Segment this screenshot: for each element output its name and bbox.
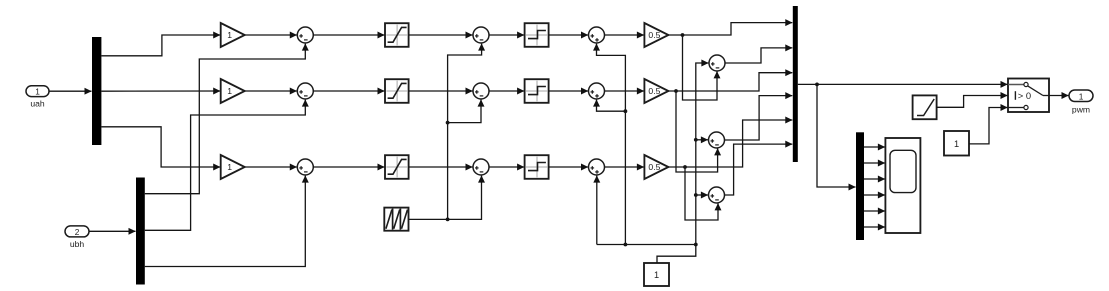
wire uah to demux D1 (49, 90, 92, 92)
constant CONST2 (value 1) (944, 131, 969, 156)
wire d2 to mux M1 input 3 (668, 73, 792, 91)
wire relay R2 to sum S3B (549, 90, 588, 92)
wire mux M1 output to switch SW input 1 (798, 83, 1008, 85)
ramp block RAMP (913, 95, 937, 119)
wire D3 out5 to scope (864, 210, 885, 212)
junction d2 (674, 89, 678, 93)
input port 2 (ubh) (65, 226, 89, 237)
svg-text:0.5: 0.5 (648, 30, 660, 40)
wire saturation SAT3 to sum S2C (409, 166, 473, 168)
wire const to sum SB plus input (696, 139, 708, 141)
wire sum S3B to gain G05B (605, 90, 644, 92)
wire CONST1 output (657, 245, 696, 264)
wire D1 out3 to gain K3 (101, 127, 220, 167)
sum S3A (+,+) (589, 27, 605, 43)
sum SA (1-d1) (709, 55, 725, 71)
wire sum S2B to relay R2 (489, 90, 524, 92)
wire D2 out3 to sum S1C minus input (145, 176, 305, 267)
sum SB (1-d2) (709, 132, 725, 148)
wire TRI to sum S2C minus input (448, 176, 482, 220)
wire D3 out4 to scope (864, 194, 885, 196)
svg-text:1: 1 (1079, 91, 1084, 101)
wire d2 branch to sum SB minus input (676, 91, 718, 172)
wire sum SC to mux M1 input 6 (725, 144, 793, 195)
relay R1 (525, 23, 549, 47)
wire sum S3C to gain G05C (605, 166, 644, 168)
wire d1 branch to sum SA minus input (683, 35, 718, 100)
repeating sequence TRI (sawtooth) (384, 208, 408, 231)
junction const row2 (624, 109, 628, 113)
wire CONST2 to switch SW input 3 (969, 108, 1008, 144)
svg-text:1: 1 (954, 139, 959, 149)
wire d1 to mux M1 input 1 (668, 23, 792, 35)
saturation SAT1 (385, 23, 409, 47)
gain G05C (value 0.5) (644, 155, 668, 179)
svg-text:ubh: ubh (70, 239, 85, 249)
wire D2 out2 to sum S1B minus input (145, 100, 305, 231)
wire D3 out3 to scope (864, 178, 885, 180)
wire d3 to mux M1 input 5 (668, 120, 792, 167)
svg-text:0.5: 0.5 (648, 86, 660, 96)
svg-text:2: 2 (75, 227, 80, 237)
svg-text:0.5: 0.5 (648, 162, 660, 172)
junction d1 (681, 33, 685, 37)
sum S1B (+,-) (297, 83, 313, 99)
gain G05B (value 0.5) (644, 79, 668, 103)
scope SCOPE (885, 138, 920, 233)
input port 1 (uah) (26, 86, 49, 97)
demux D2 (ubh) bar (136, 178, 145, 285)
demux D1 (uah) bar (92, 37, 101, 145)
junction const net right (694, 243, 698, 247)
wire D1 out2 to gain K2 (101, 90, 220, 92)
svg-text:1: 1 (227, 162, 232, 172)
wire sum S1B to saturation SAT2 (313, 90, 384, 92)
wire TRI to sum S2B minus input (448, 100, 481, 123)
junction const to SC (694, 193, 698, 197)
relay R3 (525, 155, 549, 179)
wire D3 out6 to scope (864, 226, 885, 228)
sum SC (1-d3) (709, 187, 725, 203)
junction TRI mid (446, 121, 450, 125)
demux D3 bar (856, 132, 864, 240)
wire sum SA to mux M1 input 2 (725, 48, 792, 63)
junction mux output (815, 83, 819, 87)
svg-text:> 0: > 0 (1018, 90, 1031, 101)
wire sum S2C to relay R3 (489, 166, 524, 168)
saturation SAT3 (385, 155, 409, 179)
wire D1 out1 to gain K1 (101, 35, 220, 56)
sum S2A (+,-) (473, 27, 489, 43)
junction d3 (683, 165, 687, 169)
junction TRI bottom (446, 218, 450, 222)
wire sum S1C to saturation SAT3 (313, 166, 384, 168)
wire relay R3 to sum S3C (549, 166, 588, 168)
svg-text:uah: uah (30, 99, 45, 109)
wire gain K3 to sum S1C (245, 166, 297, 168)
wire const to sum SA plus input (696, 63, 709, 245)
output port 1 (pwm) (1069, 90, 1093, 102)
wire gain K2 to sum S1B (245, 90, 297, 92)
wire sum S2A to relay R1 (489, 34, 524, 36)
relay R2 (525, 79, 549, 103)
junction const net mid (624, 243, 628, 247)
gain K3 (value 1) (221, 155, 245, 179)
sum S2C (+,-) (473, 159, 489, 175)
wire const net horizontal (597, 244, 696, 246)
wire const to sum S3A plus input (597, 44, 626, 112)
svg-text:1: 1 (35, 87, 40, 97)
wire relay R1 to sum S3A (549, 34, 588, 36)
gain G05A (value 0.5) (644, 23, 668, 47)
wire d3 branch to sum SC minus input (685, 167, 718, 220)
wire D3 out2 to scope (864, 162, 885, 164)
gain K1 (value 1) (221, 23, 245, 47)
wire saturation SAT2 to sum S2B (409, 90, 473, 92)
sum S1A (+,-) (297, 27, 313, 43)
wire const to sum S3B plus input (597, 100, 626, 112)
wire sum S1A to saturation SAT1 (313, 34, 384, 36)
wire ubh to demux D2 (89, 230, 136, 232)
sum S1C (+,-) (297, 159, 313, 175)
sum S3C (+,+) (589, 159, 605, 175)
svg-text:pwm: pwm (1072, 105, 1090, 115)
wire const riser (624, 111, 626, 244)
wire TRI to sum S2A minus input (448, 44, 482, 123)
svg-text:1: 1 (227, 86, 232, 96)
svg-text:1: 1 (654, 270, 659, 280)
junction const to SB (694, 138, 698, 142)
constant CONST1 (value 1) (644, 263, 669, 286)
wire sum SB to mux M1 input 4 (725, 96, 793, 140)
saturation SAT2 (385, 79, 409, 103)
wire gain K1 to sum S1A (245, 34, 297, 36)
wire const to sum S3C plus input (596, 176, 598, 245)
wire sum S3A to gain G05A (605, 34, 644, 36)
switch SW (criteria > 0) (1008, 79, 1049, 113)
wire switch SW to output port pwm (1049, 95, 1069, 97)
mux M1 bar (793, 6, 798, 162)
wire TRI output (409, 218, 448, 220)
sum S2B (+,-) (473, 83, 489, 99)
wire saturation SAT1 to sum S2A (409, 34, 473, 36)
wire TRI riser (447, 123, 449, 220)
wire mux output to demux D3 (817, 84, 856, 187)
wire D2 out1 to sum S1A minus input (145, 44, 305, 194)
sum S3B (+,+) (589, 83, 605, 99)
wire RAMP to switch SW input 2 (937, 96, 1008, 108)
svg-text:1: 1 (227, 30, 232, 40)
wire D3 out1 to scope (864, 146, 885, 148)
gain K2 (value 1) (221, 79, 245, 103)
wire const to sum SC plus input (696, 194, 708, 196)
